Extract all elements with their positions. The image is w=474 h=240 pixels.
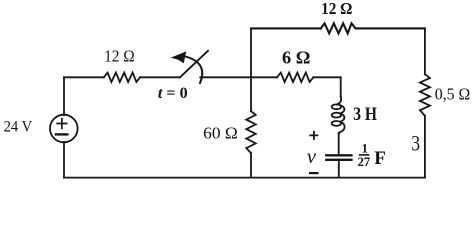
source V1 circle bbox=[50, 115, 78, 143]
svg-text:1: 1 bbox=[362, 142, 368, 156]
label plus (cap) bbox=[309, 131, 318, 140]
wire capacitor to bottom rail bbox=[338, 161, 340, 178]
wire right vertical bottom bbox=[424, 116, 426, 178]
wire R6 to inductor branch corner bbox=[313, 76, 340, 78]
svg-text:12 Ω: 12 Ω bbox=[104, 47, 135, 66]
switch blade bbox=[180, 51, 208, 78]
wire left vertical bottom (source bottom to bottom rail) bbox=[63, 142, 65, 178]
svg-text:6 Ω: 6 Ω bbox=[282, 48, 310, 68]
svg-text:t = 0: t = 0 bbox=[158, 85, 188, 102]
wire right vertical top bbox=[424, 28, 426, 74]
source plus sign bbox=[57, 119, 66, 129]
wire bottom rail bbox=[64, 177, 425, 179]
resistor R 12ohm top bbox=[321, 23, 358, 33]
switch arrow head bbox=[171, 51, 187, 63]
resistor R 12ohm left bbox=[104, 73, 140, 82]
source minus sign bbox=[56, 133, 67, 135]
resistor R 6ohm bbox=[277, 73, 313, 82]
svg-text:27: 27 bbox=[358, 155, 371, 169]
wire switch to junction node bbox=[200, 76, 277, 78]
svg-text:60 Ω: 60 Ω bbox=[203, 124, 238, 143]
svg-text:v: v bbox=[307, 146, 317, 168]
wire top rail right bbox=[358, 27, 425, 29]
resistor R 60ohm bbox=[246, 111, 255, 153]
inductor branch top wire bbox=[340, 77, 342, 97]
svg-text:3 H: 3 H bbox=[353, 105, 377, 125]
resistor R 0.5ohm bbox=[420, 74, 430, 116]
svg-text:12 Ω: 12 Ω bbox=[321, 0, 352, 18]
label minus (cap) bbox=[309, 172, 319, 174]
svg-text:0,5 Ω: 0,5 Ω bbox=[435, 85, 471, 104]
wire R12 to switch pivot bbox=[140, 76, 180, 78]
wire top rail left bbox=[251, 27, 321, 29]
junction vertical line (top rail to 60ohm) bbox=[250, 28, 252, 111]
svg-text:3: 3 bbox=[411, 130, 420, 155]
capacitor C plates bbox=[326, 154, 351, 156]
wire 60ohm to bottom rail bbox=[250, 153, 252, 178]
svg-text:F: F bbox=[374, 148, 386, 169]
wire coil to capacitor bbox=[338, 133, 340, 154]
wire top-left horizontal (corner to R 12ohm left) bbox=[64, 76, 104, 78]
inductor L 3H coil bbox=[337, 97, 342, 105]
switch arc bbox=[185, 56, 202, 83]
wire left vertical top (source top to corner) bbox=[63, 77, 65, 115]
svg-text:24 V: 24 V bbox=[4, 119, 33, 136]
